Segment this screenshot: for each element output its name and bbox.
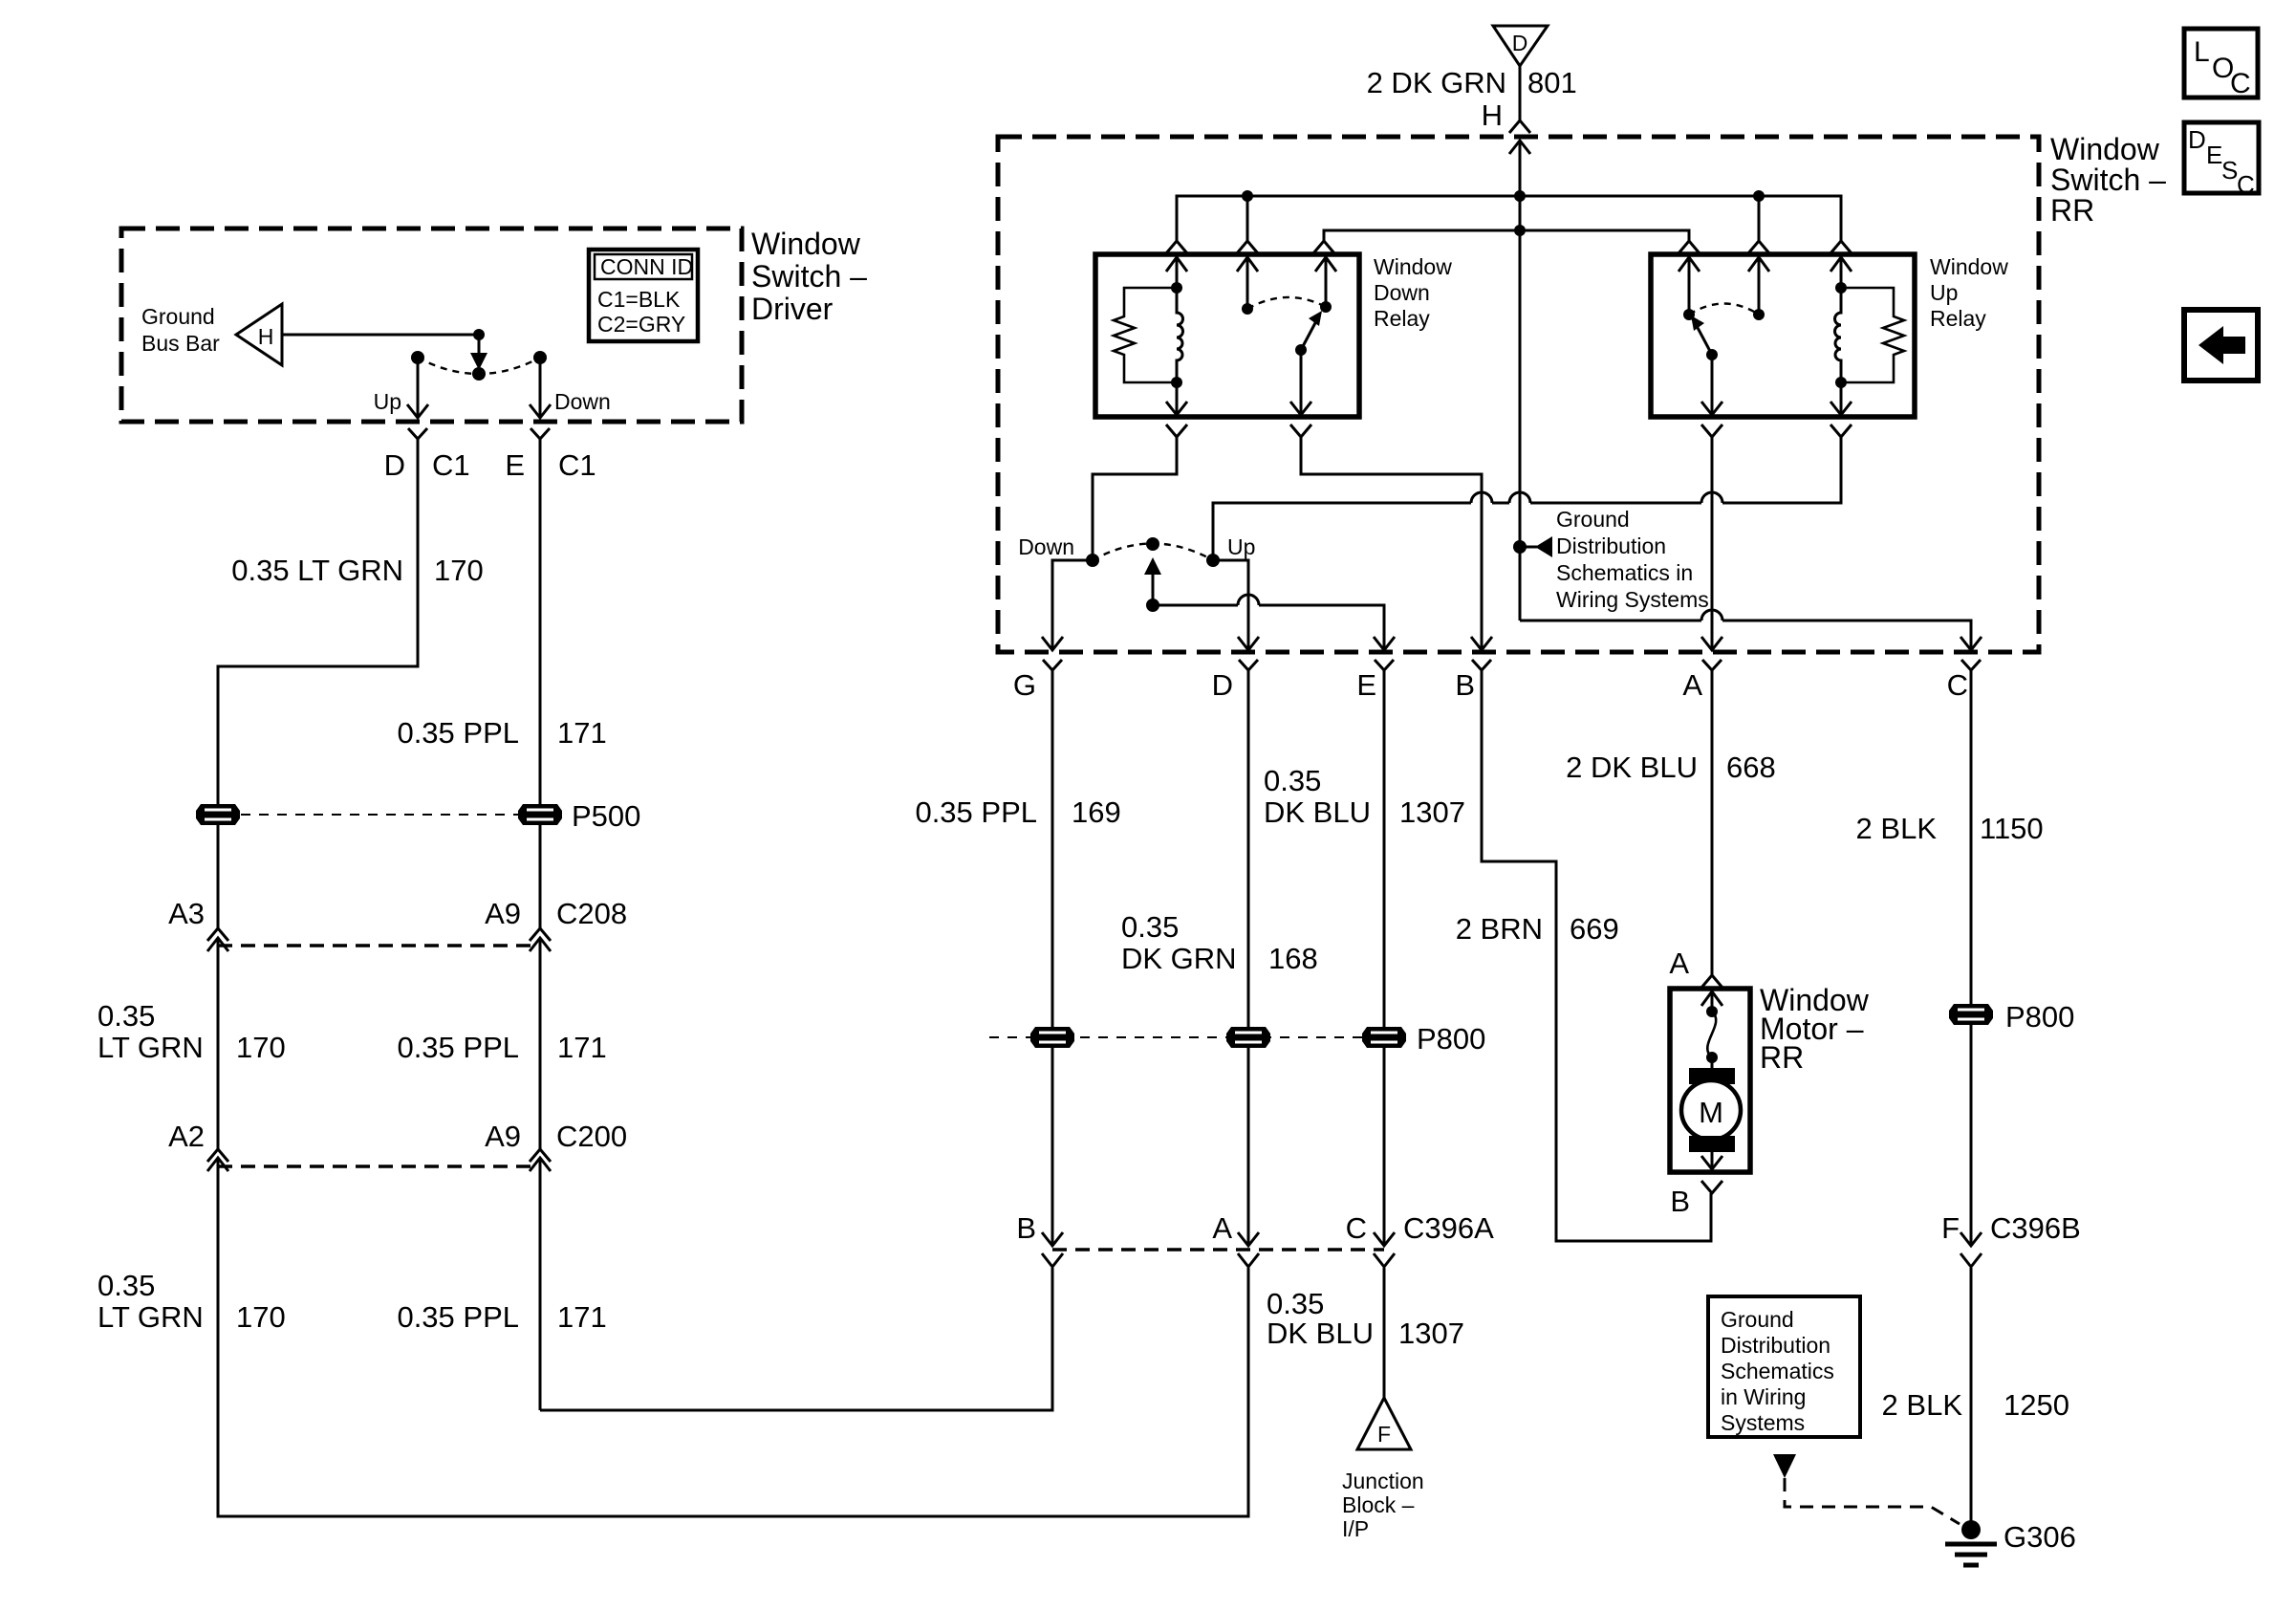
- up relay coil top node: [1835, 282, 1847, 294]
- RR master switch common arrow pointing up: [1152, 566, 1155, 605]
- down relay switch pin wire (bottom): [1300, 350, 1303, 415]
- svg-text:B: B: [1455, 668, 1475, 702]
- svg-text:171: 171: [557, 1300, 607, 1334]
- svg-text:0.35: 0.35: [1267, 1287, 1324, 1320]
- dashed box: Window Switch - Driver: [121, 229, 742, 422]
- svg-text:LT GRN: LT GRN: [97, 1300, 204, 1334]
- svg-text:Down: Down: [554, 389, 611, 414]
- C396B pin F arrows: [1960, 1232, 1982, 1246]
- wire: up relay coil pin to Up contact (hops B, center, A): [1213, 437, 1841, 560]
- svg-text:171: 171: [557, 1031, 607, 1064]
- svg-text:H: H: [1482, 98, 1503, 132]
- svg-text:Driver: Driver: [751, 292, 834, 326]
- svg-text:Ground: Ground: [141, 304, 215, 329]
- connector P800 on wire G: [1030, 1027, 1074, 1048]
- svg-text:L: L: [2194, 36, 2210, 68]
- svg-text:170: 170: [236, 1031, 286, 1064]
- dashed arc of driver switch: [418, 358, 540, 374]
- pointer triangle to ground distribution note: [1520, 546, 1537, 549]
- dashed leader from note box to G306: [1785, 1478, 1960, 1524]
- relay box: Window Up Relay: [1651, 254, 1915, 417]
- motor brush node top: [1706, 1006, 1718, 1017]
- pin G arrows at RR box edge: [1042, 637, 1063, 650]
- up relay mid pin wire with arrow: [1758, 257, 1761, 315]
- driver switch Up contact node: [411, 351, 424, 364]
- svg-text:B: B: [1016, 1211, 1036, 1245]
- down relay coil bottom node: [1171, 377, 1182, 388]
- svg-text:DK BLU: DK BLU: [1264, 795, 1371, 829]
- RR master switch pivot node: [1146, 537, 1159, 551]
- svg-text:0.35 PPL: 0.35 PPL: [397, 716, 519, 750]
- node D: off-page triangle reference at top: [1493, 26, 1548, 66]
- svg-text:Block –: Block –: [1342, 1492, 1415, 1517]
- svg-text:P800: P800: [1417, 1022, 1485, 1056]
- C396A pin C arrows: [1374, 1232, 1395, 1246]
- svg-text:C: C: [1947, 668, 1968, 702]
- C208 pin A3 chevrons pointing up: [207, 928, 228, 941]
- up relay coil bottom arrow: [1830, 402, 1852, 415]
- wire: C396A pin B down and across to PPL column: [540, 1268, 1052, 1410]
- up relay fixed contact node: [1683, 309, 1695, 320]
- svg-text:C208: C208: [556, 897, 627, 930]
- svg-text:0.35: 0.35: [1121, 910, 1179, 944]
- down relay coil pin arrow (top inside): [1166, 257, 1187, 272]
- down relay mid pin contact node: [1242, 303, 1253, 315]
- up relay mid contact node: [1753, 309, 1765, 320]
- down relay coil pin wire (bottom): [1176, 382, 1179, 415]
- svg-text:Up: Up: [374, 389, 401, 414]
- resistor: down relay suppression resistor: [1114, 288, 1177, 382]
- svg-text:Systems: Systems: [1721, 1410, 1805, 1435]
- relay box: Window Down Relay: [1095, 254, 1359, 417]
- svg-text:168: 168: [1268, 942, 1318, 975]
- connector P800 on wire C: [1949, 1004, 1993, 1025]
- motor internal top pin arrow: [1701, 991, 1722, 1006]
- svg-text:A2: A2: [168, 1120, 205, 1153]
- down relay fixed contact node: [1320, 301, 1332, 313]
- svg-text:Window: Window: [751, 227, 861, 261]
- svg-text:Up: Up: [1930, 280, 1958, 305]
- chevrons below Window Up Relay: [1701, 425, 1722, 437]
- svg-text:Switch –: Switch –: [751, 259, 867, 294]
- svg-text:CONN ID: CONN ID: [600, 254, 693, 279]
- svg-text:A3: A3: [168, 897, 205, 930]
- pointer triangle below note box: [1773, 1454, 1796, 1478]
- up relay coil bottom node: [1835, 377, 1847, 388]
- motor brush node bottom: [1706, 1052, 1718, 1063]
- driver pin D chevron below box: [408, 428, 427, 439]
- dashed arc of RR master switch: [1093, 544, 1213, 561]
- svg-text:C200: C200: [556, 1120, 627, 1153]
- motor armature circle with M: [1681, 1080, 1741, 1140]
- svg-text:2 DK GRN: 2 DK GRN: [1367, 66, 1506, 99]
- wire: pin B jog to window motor B: [1482, 670, 1711, 1241]
- svg-text:RR: RR: [2050, 193, 2094, 228]
- svg-text:E: E: [2206, 141, 2222, 169]
- wire: switch common to pin E (hops D wire): [1153, 605, 1384, 650]
- wire: 2 DK BLU 668 pin A down to window motor A: [1711, 670, 1714, 975]
- inductor: down relay coil winding: [1177, 288, 1183, 382]
- svg-text:Window: Window: [1930, 254, 2008, 279]
- svg-text:Distribution: Distribution: [1556, 533, 1666, 558]
- svg-text:C: C: [1346, 1211, 1367, 1245]
- svg-text:P800: P800: [2005, 1000, 2074, 1034]
- svg-text:E: E: [1356, 668, 1376, 702]
- inductor: up relay coil winding: [1835, 288, 1841, 382]
- svg-text:B: B: [1670, 1185, 1690, 1218]
- dashed actuation arc in up relay: [1689, 304, 1759, 316]
- svg-text:C396B: C396B: [1990, 1211, 2081, 1245]
- connector row C200 jumper dashes: [218, 1165, 540, 1167]
- chevrons below Window Down Relay: [1166, 425, 1187, 437]
- junction node on bus1 at relay pin: [1242, 190, 1253, 202]
- svg-text:0.35 LT GRN: 0.35 LT GRN: [231, 554, 403, 587]
- wire: LT GRN C200 down to bottom run: [218, 1158, 229, 1516]
- connector P500 on LT GRN wire: [196, 804, 240, 825]
- svg-text:Up: Up: [1227, 534, 1255, 559]
- RR master switch common node: [1146, 599, 1159, 612]
- svg-text:1150: 1150: [1980, 812, 2044, 845]
- wire: 2 BLK 1250 down to ground G306: [1970, 1268, 1973, 1526]
- CONN ID table: [589, 250, 698, 341]
- up relay arm pivot node: [1706, 349, 1718, 360]
- driver switch pivot node: [472, 367, 486, 381]
- wire: Down contact to pin G: [1052, 560, 1093, 650]
- legend box DESC: [2184, 122, 2259, 199]
- wire: down relay switch pin to pin B: [1301, 437, 1482, 650]
- wire: center feed from H down through buses: [1519, 141, 1522, 620]
- svg-text:2 DK BLU: 2 DK BLU: [1566, 751, 1698, 784]
- pin H chevron outside Window Switch RR: [1509, 120, 1530, 133]
- pin E arrows at RR box edge: [1374, 637, 1395, 650]
- svg-text:C: C: [2237, 170, 2255, 199]
- wire: Up contact to pin D: [417, 358, 420, 418]
- svg-text:Junction: Junction: [1342, 1469, 1424, 1493]
- svg-text:D: D: [2188, 125, 2206, 154]
- wire: PPL below P500 to C208: [539, 825, 542, 928]
- connector P800 on wire D: [1226, 1027, 1270, 1048]
- svg-text:2 BLK: 2 BLK: [1856, 812, 1938, 845]
- note box: Ground Distribution Schematics in Wiring Systems: [1708, 1296, 1860, 1437]
- driver switch common arrow pointing down: [478, 335, 481, 356]
- svg-text:in Wiring: in Wiring: [1721, 1384, 1806, 1409]
- down relay coil pin wire: [1176, 257, 1179, 288]
- svg-text:M: M: [1699, 1096, 1723, 1129]
- svg-text:C: C: [2230, 68, 2251, 99]
- wire: PPL C208 to C200: [539, 938, 542, 1149]
- chevrons above Window Up Relay pins: [1679, 241, 1700, 253]
- connector P800 on wire E: [1362, 1027, 1406, 1048]
- wire: LT GRN C208 to C200: [217, 938, 220, 1149]
- down relay movable arm with arrowhead: [1301, 319, 1317, 350]
- bus 1 wire (upper horizontal feed): [1177, 196, 1841, 241]
- svg-text:DK GRN: DK GRN: [1121, 942, 1237, 975]
- svg-text:170: 170: [434, 554, 484, 587]
- wire: 2 BLK 1150 pin C down to C396B: [1970, 670, 1973, 1004]
- svg-text:C1=BLK: C1=BLK: [597, 287, 681, 312]
- wire: up relay switch pin to pin A: [1711, 437, 1714, 650]
- wire: 0.35 DK GRN 168 pin D down to C396A pin A: [1247, 670, 1250, 1027]
- down relay switched pin wire with arrow: [1325, 257, 1328, 307]
- down relay switch bottom arrow: [1290, 402, 1311, 415]
- motor pin B chevron: [1701, 1181, 1722, 1193]
- C396A pin A arrows: [1238, 1232, 1259, 1246]
- svg-text:668: 668: [1726, 751, 1776, 784]
- connector P500 on PPL wire: [518, 804, 562, 825]
- pin A arrows at RR box edge: [1701, 637, 1722, 650]
- connector row C208 jumper dashes: [218, 944, 540, 947]
- svg-text:Relay: Relay: [1374, 306, 1430, 331]
- pin C arrows at RR box edge: [1960, 637, 1982, 650]
- svg-text:C396A: C396A: [1403, 1211, 1494, 1245]
- wire: 0.35 DK BLU 1307 pin E down to C396A pin C: [1383, 670, 1386, 1027]
- svg-text:A9: A9: [485, 897, 521, 930]
- ground symbol G306: [1945, 1520, 1997, 1565]
- svg-text:Distribution: Distribution: [1721, 1333, 1830, 1358]
- svg-text:F: F: [1941, 1211, 1960, 1245]
- wire: bus1 to down relay coil pin: [1246, 196, 1249, 241]
- svg-text:2 BRN: 2 BRN: [1456, 912, 1543, 946]
- svg-text:0.35 PPL: 0.35 PPL: [397, 1300, 519, 1334]
- up relay switch pin wire (bottom): [1711, 355, 1714, 415]
- svg-text:P500: P500: [572, 799, 640, 833]
- svg-text:Relay: Relay: [1930, 306, 1986, 331]
- up relay fixed contact pin wire with arrow: [1688, 257, 1691, 315]
- C200 pin A9 chevrons pointing up: [530, 1149, 551, 1162]
- pin H arrow inside box: [1509, 141, 1530, 154]
- motor flex lead curve: [1707, 1012, 1716, 1057]
- motor lower brush bar: [1689, 1136, 1735, 1152]
- RR master switch Up contact node: [1206, 554, 1220, 567]
- svg-text:669: 669: [1570, 912, 1619, 946]
- pin D arrows at RR box edge: [1238, 637, 1259, 650]
- svg-text:171: 171: [557, 716, 607, 750]
- up relay movable arm with arrowhead: [1696, 324, 1712, 355]
- driver switch Down contact node: [533, 351, 547, 364]
- svg-text:Switch –: Switch –: [2050, 163, 2166, 197]
- svg-text:S: S: [2221, 156, 2238, 185]
- junction node on bus1 center: [1514, 190, 1526, 202]
- junction block F triangle: [1357, 1398, 1411, 1449]
- svg-text:Down: Down: [1018, 534, 1074, 559]
- dashed actuation arc in down relay: [1247, 297, 1326, 309]
- svg-text:E: E: [505, 448, 525, 482]
- svg-text:169: 169: [1072, 795, 1121, 829]
- C200 pin A2 chevrons pointing up: [207, 1149, 228, 1162]
- wire: center feed to pin C (hops A wire): [1520, 620, 1971, 650]
- wire: 0.35 LT GRN 170 from driver pin D: [218, 439, 418, 804]
- svg-text:0.35 PPL: 0.35 PPL: [915, 795, 1037, 829]
- legend box back arrow: [2184, 310, 2258, 381]
- junction node on bus1 at up relay pin: [1753, 190, 1765, 202]
- svg-text:H: H: [258, 324, 274, 349]
- svg-text:Ground: Ground: [1556, 507, 1630, 532]
- svg-text:G306: G306: [2004, 1520, 2076, 1554]
- wire: 0.35 PPL 169 pin G down to C396A pin B: [1051, 670, 1054, 1027]
- svg-text:1307: 1307: [1398, 1317, 1464, 1350]
- svg-text:Ground: Ground: [1721, 1307, 1794, 1332]
- svg-text:Wiring Systems: Wiring Systems: [1556, 587, 1709, 612]
- svg-text:2 BLK: 2 BLK: [1882, 1388, 1963, 1422]
- ground bus bar triangle H: [236, 304, 282, 365]
- dashed box: Window Switch - RR: [998, 137, 2039, 652]
- svg-text:Bus Bar: Bus Bar: [141, 331, 220, 356]
- svg-text:G: G: [1013, 668, 1036, 702]
- wire: C396A pin C down to junction block: [1383, 1268, 1386, 1398]
- wire: PPL C200 down to cross run: [539, 1158, 542, 1410]
- wire: LT GRN below P500 to C208: [217, 825, 220, 928]
- driver switch common node: [473, 329, 485, 340]
- svg-text:Schematics: Schematics: [1721, 1359, 1834, 1383]
- down relay arm pivot node: [1295, 344, 1307, 356]
- wire: down relay coil pin to Down contact: [1093, 437, 1177, 560]
- svg-text:A: A: [1212, 1211, 1232, 1245]
- wire: C396A pin A down and across to LT GRN column: [222, 1268, 1248, 1516]
- svg-text:Down: Down: [1374, 280, 1430, 305]
- down relay coil top node: [1171, 282, 1182, 294]
- down relay mid pin wire with arrow: [1246, 257, 1249, 309]
- svg-text:0.35: 0.35: [97, 1269, 155, 1302]
- pin B arrows at RR box edge: [1471, 637, 1492, 650]
- svg-text:C2=GRY: C2=GRY: [597, 312, 685, 337]
- junction node: ground distribution tap on center feed: [1513, 540, 1527, 554]
- junction node on bus2 center: [1514, 225, 1526, 236]
- svg-text:Window: Window: [1374, 254, 1452, 279]
- RR master switch Down contact node: [1086, 554, 1099, 567]
- up relay switch bottom arrow: [1701, 402, 1722, 415]
- svg-text:F: F: [1377, 1422, 1391, 1447]
- wire: 2 DK GRN 801 from triangle D to Window Switch RR pin H: [1519, 66, 1522, 120]
- svg-text:Schematics in: Schematics in: [1556, 560, 1693, 585]
- svg-text:1250: 1250: [2004, 1388, 2069, 1422]
- wire: ground bus bar to switch common: [282, 334, 479, 337]
- wire: Down contact to pin E: [539, 358, 542, 418]
- wire: Up contact to pin D: [1213, 560, 1248, 650]
- C208 pin A9 chevrons pointing up: [530, 928, 551, 941]
- svg-text:D: D: [384, 448, 405, 482]
- down relay coil bottom arrow: [1166, 402, 1187, 415]
- svg-text:A9: A9: [485, 1120, 521, 1153]
- svg-text:A: A: [1669, 947, 1689, 980]
- svg-text:0.35: 0.35: [1264, 764, 1321, 797]
- svg-text:Window: Window: [2050, 132, 2160, 166]
- svg-text:A: A: [1682, 668, 1702, 702]
- connector row C396A jumper dashes: [1052, 1248, 1384, 1251]
- svg-text:170: 170: [236, 1300, 286, 1334]
- svg-text:RR: RR: [1760, 1040, 1804, 1075]
- connector link dashes P500 row: [241, 814, 519, 816]
- motor upper brush bar: [1689, 1068, 1735, 1084]
- legend box LOC: [2184, 29, 2258, 99]
- svg-text:D: D: [1212, 668, 1233, 702]
- bus 2 wire (lower horizontal feed): [1324, 230, 1689, 241]
- wire: bus1 to up relay mid pin: [1758, 196, 1761, 241]
- connector link dashes P800 row: [989, 1036, 1376, 1038]
- svg-text:DK BLU: DK BLU: [1267, 1317, 1374, 1350]
- motor internal bottom pin arrow: [1711, 1152, 1714, 1169]
- svg-text:801: 801: [1527, 66, 1577, 99]
- up relay coil pin wire (top) with arrow: [1840, 257, 1843, 288]
- chevrons above Window Down Relay pins: [1166, 241, 1187, 253]
- driver pin E chevron below box: [531, 428, 550, 439]
- svg-text:0.35: 0.35: [97, 999, 155, 1033]
- motor pin A chevron: [1701, 975, 1722, 988]
- up relay coil pin wire (bottom): [1840, 382, 1843, 415]
- svg-text:C1: C1: [558, 448, 596, 482]
- svg-text:D: D: [1512, 31, 1528, 55]
- C396A pin B arrows: [1042, 1232, 1063, 1246]
- component box: Window Motor - RR: [1670, 989, 1750, 1172]
- svg-text:I/P: I/P: [1342, 1516, 1369, 1541]
- svg-text:C1: C1: [432, 448, 470, 482]
- wire: 0.35 PPL 171 from driver pin E: [539, 439, 542, 804]
- svg-text:LT GRN: LT GRN: [97, 1031, 204, 1064]
- svg-text:0.35 PPL: 0.35 PPL: [397, 1031, 519, 1064]
- svg-text:1307: 1307: [1399, 795, 1465, 829]
- resistor: up relay suppression resistor: [1841, 288, 1904, 382]
